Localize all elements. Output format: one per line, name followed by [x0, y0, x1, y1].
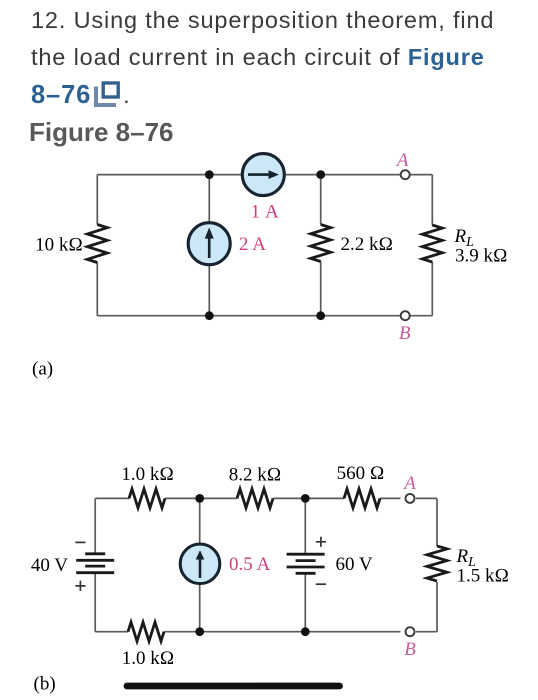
svg-text:2 A: 2 A	[239, 234, 266, 255]
wire right (a)	[431, 175, 433, 316]
junction dot (a) bottom-left	[205, 311, 214, 320]
junction dot (a) top-left	[205, 170, 214, 179]
wire right (b)	[436, 498, 438, 631]
terminal B (b)	[406, 627, 415, 636]
wire bottom (b)	[95, 631, 437, 633]
minus sign 40V	[75, 541, 85, 543]
svg-text:B: B	[404, 639, 416, 660]
resistor 8.2k (b)	[237, 489, 273, 508]
minus sign 60V	[316, 583, 326, 585]
battery 40V	[76, 554, 114, 573]
terminal A (a)	[401, 170, 410, 179]
junction dot (a) bottom-right	[316, 311, 325, 320]
svg-text:1 A: 1 A	[251, 202, 280, 223]
svg-text:60 V: 60 V	[336, 554, 373, 575]
svg-text:10 kΩ: 10 kΩ	[35, 235, 83, 256]
junction dot (b) top-right	[301, 494, 310, 503]
svg-text:3.9 kΩ: 3.9 kΩ	[455, 246, 508, 267]
svg-text:40 V: 40 V	[31, 555, 68, 576]
terminal B (a)	[401, 311, 410, 320]
svg-text:1.0 kΩ: 1.0 kΩ	[121, 464, 174, 485]
resistor RL (b)	[427, 546, 447, 581]
svg-text:A: A	[395, 150, 409, 171]
junction dot (b) bottom-left	[195, 627, 204, 636]
wire bottom (a)	[97, 315, 432, 317]
figure caption heading	[29, 119, 174, 145]
problem statement paragraph	[31, 9, 538, 33]
svg-text:(b): (b)	[34, 674, 56, 695]
current source 1A	[242, 154, 284, 196]
popup link icon	[96, 83, 118, 105]
battery 60V	[287, 554, 325, 573]
resistor 1.0k bottom (b)	[128, 622, 164, 641]
junction dot (b) top-left	[195, 494, 204, 503]
svg-text:(a): (a)	[32, 359, 53, 380]
svg-text:A: A	[402, 473, 416, 494]
svg-text:1.5 kΩ: 1.5 kΩ	[457, 566, 510, 587]
current source 2A	[188, 223, 230, 265]
wire left (b)	[94, 498, 96, 631]
wire 2A branch (a)	[208, 175, 210, 316]
terminal A (b)	[406, 494, 415, 503]
junction dot (b) bottom-right	[301, 627, 310, 636]
junction dot (a) top-right	[316, 170, 325, 179]
resistor 10k (a)	[87, 225, 107, 263]
wire left (a)	[96, 175, 98, 316]
resistor 2.2k (a)	[311, 225, 331, 262]
thick divider bar	[127, 683, 340, 690]
plus sign 40V	[75, 581, 85, 591]
svg-text:8.2 kΩ: 8.2 kΩ	[229, 465, 282, 486]
svg-text:B: B	[399, 323, 411, 344]
svg-text:560 Ω: 560 Ω	[337, 463, 385, 484]
wire 0.5A branch (b)	[199, 498, 201, 631]
resistor 560 (b)	[344, 489, 380, 508]
plus sign 60V	[316, 537, 326, 547]
wire top (b)	[95, 497, 437, 499]
svg-text:1.0 kΩ: 1.0 kΩ	[122, 648, 175, 669]
wire top (a)	[97, 174, 432, 176]
wire 2.2k branch (a)	[320, 175, 322, 316]
resistor 1.0k top (b)	[129, 489, 165, 508]
wire 60V branch (b)	[304, 498, 306, 631]
resistor RL (a)	[422, 225, 442, 262]
svg-text:0.5 A: 0.5 A	[229, 554, 270, 575]
current source 0.5A	[180, 544, 220, 584]
svg-text:2.2 kΩ: 2.2 kΩ	[341, 234, 394, 255]
